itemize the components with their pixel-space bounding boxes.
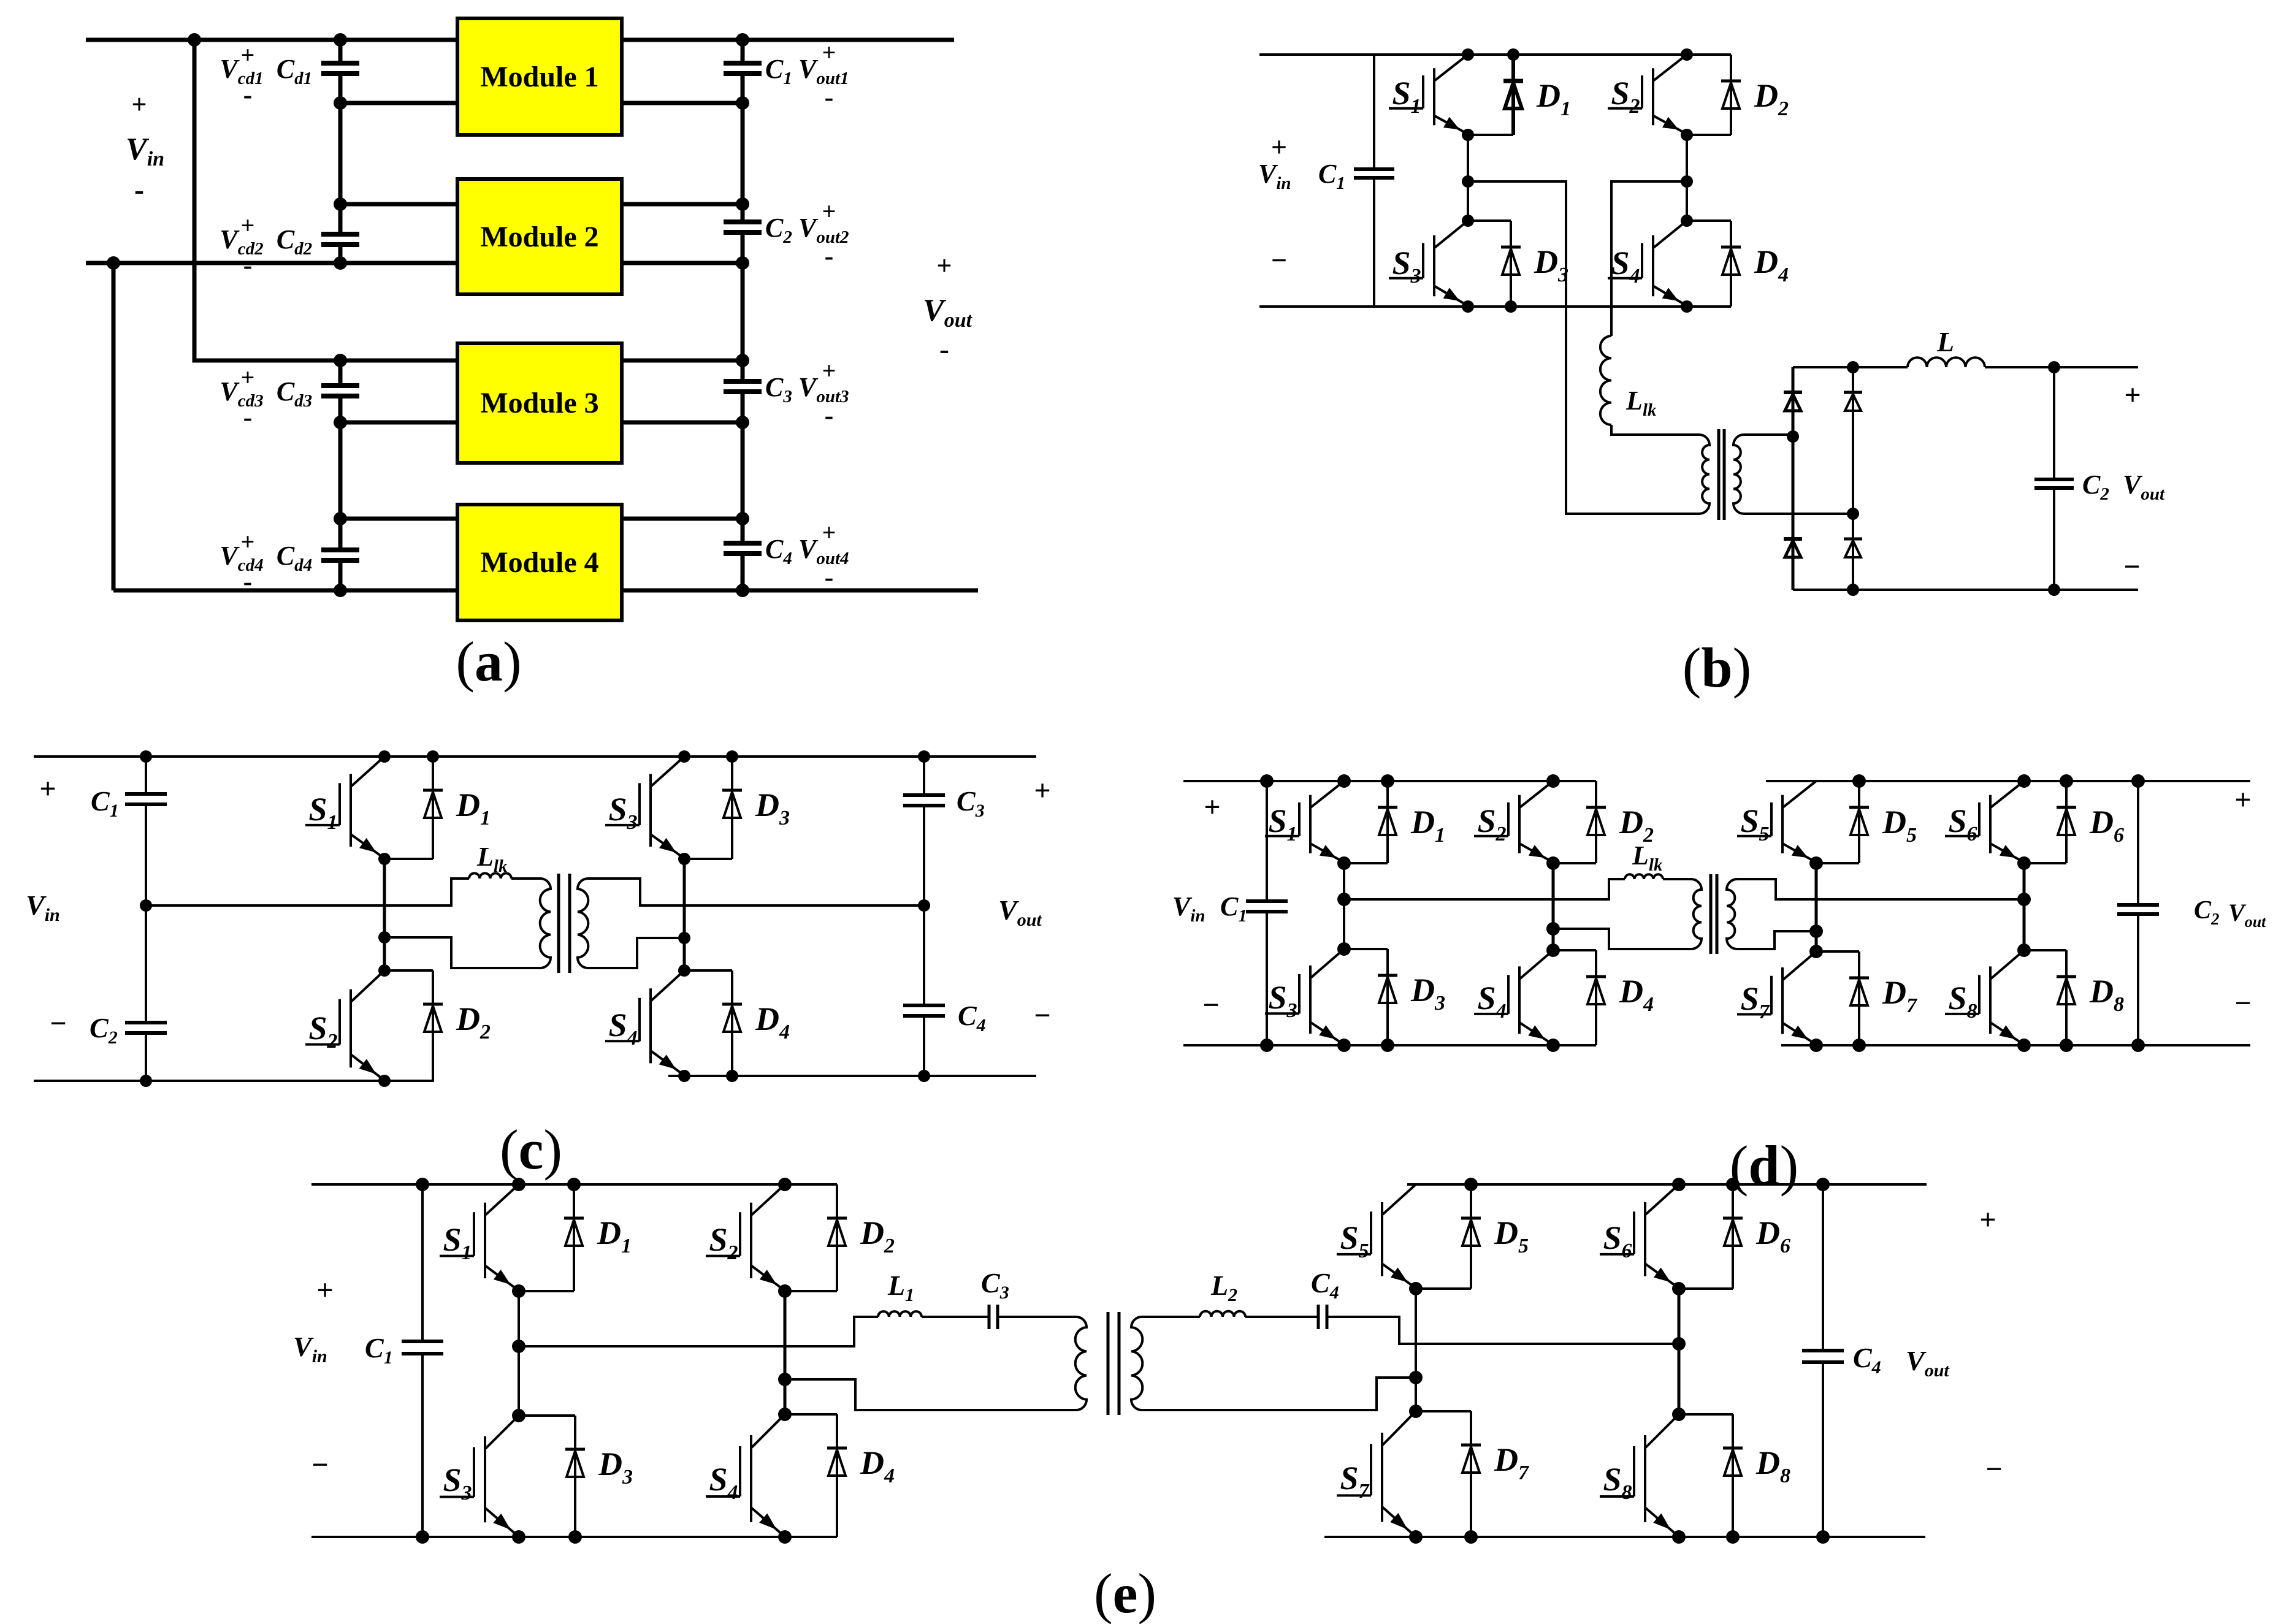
wire (d) C2 leads bbox=[2137, 781, 2139, 1045]
svg-text:−: − bbox=[1271, 245, 1287, 276]
wire (d) S3 collector to D3 bbox=[1344, 948, 1388, 950]
node S3 (e) emitter junction bbox=[512, 1530, 525, 1544]
transistor S4 (e) bbox=[706, 1414, 785, 1535]
transistor S7 (d) bbox=[1737, 951, 1816, 1043]
node S2 (b) emitter junction bbox=[1681, 129, 1693, 141]
wire (a) Module 4 upper-left lead bbox=[340, 517, 457, 521]
wire (b) Llk to primary top bbox=[1611, 425, 1700, 435]
svg-text:+: + bbox=[1034, 774, 1050, 807]
wire (b) bottom input rail bbox=[1259, 305, 1731, 308]
wire (a) Module 1 lower-right lead bbox=[622, 101, 743, 105]
wire (c) S2 collector to D2 bbox=[384, 969, 433, 972]
node S4 (c) collector junction bbox=[678, 964, 690, 977]
svg-text:(d): (d) bbox=[1730, 1134, 1798, 1197]
wire (c) left bridge mid vertical bbox=[383, 859, 386, 970]
wire (b) S3 collector to D3 bbox=[1468, 219, 1511, 222]
diode D3 (c) bbox=[722, 757, 742, 859]
capacitor C4 (c) bbox=[903, 1005, 945, 1016]
node S8 (d) emitter junction bbox=[2017, 1039, 2031, 1052]
node (a) Cd4 bottom bbox=[334, 584, 347, 597]
node S1 (e) collector junction bbox=[512, 1178, 525, 1191]
wire (b) S1 emitter to D1 bbox=[1468, 134, 1513, 136]
transistor S8 (d) bbox=[1945, 950, 2024, 1043]
node (e) D1 top bbox=[567, 1178, 581, 1191]
block Module 1 bbox=[457, 18, 622, 135]
node (c) D4 bottom bbox=[726, 1070, 738, 1082]
svg-text:-: - bbox=[243, 250, 253, 280]
wire (e) S6 emitter to D6 bbox=[1679, 1287, 1733, 1290]
wire (e) top right rail bbox=[1407, 1183, 1927, 1186]
svg-text:-: - bbox=[825, 82, 834, 112]
wire (d) S4 collector to D4 bbox=[1553, 949, 1596, 951]
svg-text:(c): (c) bbox=[500, 1118, 562, 1181]
diode D6 (e) bbox=[1723, 1184, 1743, 1289]
transistor S2 (c) bbox=[305, 970, 384, 1079]
svg-text:+: + bbox=[241, 212, 255, 239]
wire (b) S4 collector to D4 bbox=[1687, 219, 1731, 222]
svg-text:+: + bbox=[1204, 791, 1220, 823]
wire (c) tap to primary bottom bbox=[384, 937, 540, 968]
node S4 (e) emitter junction bbox=[778, 1530, 792, 1544]
wire (c) secondary bottom to right tap bbox=[589, 938, 684, 968]
capacitor C1 (d) bbox=[1246, 901, 1288, 912]
node (b) rectifier right leg top bbox=[1847, 361, 1859, 373]
wire (e) S7 collector to D7 bbox=[1416, 1410, 1471, 1412]
capacitor C1 (e) bbox=[402, 1341, 443, 1354]
wire (c) secondary top to Vout mid bbox=[589, 879, 924, 905]
block Module 3 bbox=[457, 343, 622, 463]
wire (a) Module 3 lower-right lead bbox=[622, 421, 743, 425]
node S8 (d) collector junction bbox=[2017, 944, 2031, 957]
node (a) C1 top bbox=[736, 33, 749, 47]
node (e) right bridge midpoint bbox=[1672, 1337, 1686, 1351]
transformer winding (c) primary bbox=[540, 879, 551, 968]
node (a) Cd3 bottom bbox=[334, 416, 347, 429]
transistor S1 (b) bbox=[1389, 55, 1468, 133]
node (d) D7 bottom bbox=[1852, 1039, 1866, 1052]
wire (d) top left rail bbox=[1183, 780, 1596, 782]
wire (e) L1 to C3 bbox=[922, 1316, 989, 1318]
svg-text:-: - bbox=[243, 80, 253, 110]
node (c) C1 top bbox=[140, 750, 152, 763]
node (a) C1 bottom bbox=[736, 96, 749, 110]
wire (c) S4 collector to D4 bbox=[684, 969, 732, 972]
wire (e) bottom right rail bbox=[1324, 1536, 1925, 1538]
transistor S6 (d) bbox=[1945, 781, 2024, 861]
svg-text:−: − bbox=[2234, 987, 2251, 1020]
node (a) Cd3 top bbox=[334, 354, 347, 367]
transformer winding (c) secondary bbox=[578, 879, 589, 968]
transistor S4 (d) bbox=[1474, 950, 1553, 1043]
capacitor C1 (c) bbox=[125, 794, 167, 804]
svg-text:+: + bbox=[2234, 783, 2251, 816]
node S2 (b) collector junction bbox=[1681, 48, 1693, 61]
svg-text:-: - bbox=[243, 402, 253, 432]
wire (b) right midpoint down to Llk bbox=[1611, 181, 1687, 336]
node (e) primary bottom tap bbox=[778, 1373, 792, 1386]
node S1 (b) collector junction bbox=[1462, 48, 1474, 61]
node (a) Cd2 bottom bbox=[334, 256, 347, 270]
node (b) bridge midpoint right bbox=[1681, 175, 1693, 188]
wire (c) top rail bbox=[34, 755, 1036, 758]
diode D4 (e) bbox=[827, 1414, 847, 1537]
svg-text:Module 4: Module 4 bbox=[480, 546, 598, 579]
wire (d) bottom right rail bbox=[1781, 1044, 2250, 1046]
node (b) secondary bottom junction bbox=[1847, 508, 1859, 520]
node (b) bridge midpoint left bbox=[1462, 175, 1474, 188]
diode D rect lower-left bbox=[1784, 514, 1802, 590]
node S2 (d) collector junction bbox=[1546, 774, 1560, 788]
capacitor C1 bbox=[724, 63, 762, 74]
capacitor C3 bbox=[724, 381, 762, 392]
node (d) C1 top bbox=[1260, 774, 1274, 788]
node S2 (c) emitter junction bbox=[378, 1075, 391, 1087]
node (c) D3 top bbox=[726, 750, 738, 763]
wire (c) C1 C2 column bbox=[145, 757, 147, 1081]
transistor S3 (e) bbox=[440, 1416, 519, 1535]
svg-text:+: + bbox=[131, 90, 147, 120]
wire (d) Llk to primary top bbox=[1663, 878, 1691, 880]
transistor S4 (b) bbox=[1608, 221, 1687, 305]
node S5 (e) emitter junction bbox=[1409, 1282, 1423, 1295]
node (c) secondary tap node bbox=[678, 932, 690, 944]
wire (b) rectifier left leg bbox=[1792, 367, 1795, 590]
transformer core (d) bbox=[1711, 874, 1717, 954]
wire (e) top left rail bbox=[311, 1183, 837, 1186]
wire (b) S2-S4 midpoint segment bbox=[1686, 135, 1688, 221]
capacitor C2 bbox=[724, 222, 762, 232]
wire (d) S7 collector to D7 bbox=[1816, 950, 1859, 953]
node (d) primary bottom tap bbox=[1546, 922, 1560, 936]
wire (a) Module 3 lower-left lead bbox=[340, 421, 457, 425]
transformer core (c) bbox=[559, 874, 570, 973]
wire (b) output bottom rail bbox=[1793, 589, 2138, 591]
block Module 4 bbox=[457, 505, 622, 620]
diode D3 (e) bbox=[565, 1416, 585, 1537]
inductor Llk (b) bbox=[1600, 336, 1611, 425]
wire (c) S3 emitter to D3 bbox=[684, 858, 732, 860]
node S3 (c) collector junction bbox=[678, 750, 690, 763]
diode D1 (b) bbox=[1503, 55, 1523, 135]
svg-text:+: + bbox=[241, 364, 255, 391]
wire (e) L2 to C4 bbox=[1245, 1316, 1318, 1318]
svg-text:(a): (a) bbox=[456, 630, 521, 693]
node (d) D8 bottom bbox=[2060, 1039, 2073, 1052]
node (e) D6 top bbox=[1726, 1178, 1740, 1191]
transistor S8 (e) bbox=[1600, 1414, 1679, 1535]
svg-text:+: + bbox=[316, 1274, 333, 1306]
wire (b) output top rail bbox=[1793, 366, 2138, 368]
node (a) Cd2 top bbox=[334, 197, 347, 211]
wire (a) Module 2 lower-right lead bbox=[622, 261, 743, 265]
wire (d) secondary bottom to tap bbox=[1736, 931, 1816, 949]
node (b) secondary top junction bbox=[1787, 430, 1799, 443]
node S3 (b) collector junction bbox=[1462, 215, 1474, 227]
transistor S2 (d) bbox=[1474, 781, 1553, 861]
wire (a) Module 3 upper-left lead bbox=[340, 359, 457, 363]
capacitor Cd4 bbox=[321, 550, 359, 560]
node S7 (d) emitter junction bbox=[1809, 1039, 1823, 1052]
svg-text:-: - bbox=[243, 566, 253, 597]
wire (c) C3 C4 column bbox=[923, 757, 925, 1076]
node (d) D1 top bbox=[1381, 774, 1394, 788]
node S1 (c) collector junction bbox=[378, 750, 391, 763]
node S7 (e) collector junction bbox=[1409, 1405, 1423, 1418]
transistor S7 (e) bbox=[1337, 1411, 1416, 1535]
wire (b) C1 leads bbox=[1373, 55, 1375, 307]
node S4 (e) collector junction bbox=[778, 1408, 792, 1421]
wire (b) S1-S3 midpoint segment bbox=[1467, 135, 1469, 221]
wire (d) secondary top to right mid bbox=[1736, 879, 2024, 899]
wire (d) top right rail bbox=[1766, 780, 2250, 782]
transformer winding (e) primary bbox=[1075, 1317, 1087, 1410]
node (a) C3 bottom bbox=[736, 416, 749, 429]
diode D3 (d) bbox=[1378, 949, 1397, 1045]
node (a) Cd1 bottom bbox=[334, 96, 347, 110]
wire (e) leg2 mid vertical bbox=[784, 1291, 787, 1414]
wire (b) left midpoint to primary bottom bbox=[1468, 181, 1700, 514]
wire (c) Vin mid to Llk bbox=[146, 879, 469, 905]
capacitor Cd1 bbox=[321, 63, 359, 74]
wire (a) Cd chain upper vertical bbox=[338, 40, 343, 263]
diode D rect lower-right bbox=[1844, 514, 1862, 590]
inductor L (b) bbox=[1908, 357, 1985, 367]
transistor S4 (c) bbox=[605, 970, 684, 1074]
transistor S2 (e) bbox=[706, 1184, 785, 1289]
node (e) C4out bottom bbox=[1816, 1530, 1830, 1544]
wire (d) tap to primary bottom bbox=[1553, 929, 1691, 949]
diode D2 (d) bbox=[1586, 781, 1606, 863]
capacitor Cd3 bbox=[321, 386, 359, 396]
svg-text:−: − bbox=[1202, 989, 1219, 1021]
diode D2 (c) bbox=[423, 970, 443, 1081]
node (a) C4 bottom bbox=[736, 584, 749, 597]
wire (e) S8 collector to D8 bbox=[1679, 1413, 1733, 1416]
wire (c) bottom left rail bbox=[34, 1080, 434, 1082]
node S2 (d) emitter junction bbox=[1546, 856, 1560, 870]
svg-text:+: + bbox=[822, 197, 836, 225]
node S4 (b) collector junction bbox=[1681, 215, 1693, 227]
node (c) Vout midpoint bbox=[918, 899, 930, 912]
wire (a) bottom rail bbox=[113, 589, 978, 593]
node S8 (e) collector junction bbox=[1672, 1408, 1686, 1421]
node S1 (b) emitter junction bbox=[1462, 129, 1474, 141]
svg-text:+: + bbox=[241, 41, 255, 69]
capacitor C3 (e) bbox=[989, 1305, 998, 1329]
block Module 2 bbox=[457, 179, 622, 294]
node (b) D3 bottom bbox=[1505, 300, 1517, 313]
node S6 (e) collector junction bbox=[1672, 1178, 1686, 1191]
wire (e) C1 leads bbox=[421, 1184, 424, 1537]
node (d) D6 top bbox=[2060, 774, 2073, 788]
svg-text:−: − bbox=[1985, 1453, 2002, 1485]
node S6 (e) emitter junction bbox=[1672, 1282, 1686, 1295]
node S2 (c) collector junction bbox=[378, 964, 391, 977]
node (e) left bridge midpoint bbox=[512, 1340, 525, 1353]
node S2 (e) emitter junction bbox=[778, 1284, 792, 1298]
node S1 (d) emitter junction bbox=[1337, 856, 1351, 870]
node S6 (d) collector junction bbox=[2017, 774, 2031, 788]
wire (e) S5 emitter to D5 bbox=[1416, 1287, 1471, 1290]
diode D2 (e) bbox=[827, 1184, 847, 1291]
node (b) C2 top bbox=[2048, 361, 2060, 373]
node (e) secondary tap node bbox=[1409, 1371, 1423, 1384]
wire (e) midpoint to L1 bbox=[519, 1317, 878, 1346]
wire (a) top input rail bbox=[86, 38, 954, 42]
wire (c) right bridge mid vertical bbox=[683, 859, 686, 970]
transistor S5 (d) bbox=[1737, 781, 1816, 861]
svg-text:−: − bbox=[311, 1449, 328, 1481]
diode D5 (d) bbox=[1849, 781, 1869, 863]
capacitor C4 bbox=[724, 543, 762, 554]
diode D1 (c) bbox=[423, 757, 443, 859]
svg-text:+: + bbox=[936, 251, 952, 281]
transformer winding (d) primary bbox=[1691, 879, 1702, 949]
wire (a) Module 2 upper-right lead bbox=[622, 202, 743, 207]
capacitor C2 (b) bbox=[2034, 479, 2074, 488]
wire (e) C4out leads bbox=[1822, 1184, 1824, 1537]
wire (e) S3 collector to D3 bbox=[519, 1414, 575, 1417]
wire (d) S1 emitter to D1 bbox=[1344, 862, 1388, 864]
capacitor Cd2 bbox=[321, 234, 359, 245]
wire (a) left Vin+ branch vertical bbox=[194, 40, 340, 360]
diode D rect upper-left bbox=[1784, 367, 1802, 436]
node (c) C4 bottom bbox=[918, 1070, 930, 1082]
node (a) C2 top bbox=[736, 197, 749, 211]
wire (a) Module 1 lower-left lead bbox=[340, 101, 457, 105]
node (a) C3 top bbox=[736, 354, 749, 367]
transistor S1 (e) bbox=[440, 1184, 519, 1289]
wire (e) S1 emitter to D1 bbox=[519, 1290, 574, 1292]
wire (b) C2 leads bbox=[2053, 367, 2055, 590]
node (a) Vin- tap bbox=[107, 256, 120, 270]
wire (d) S6 emitter to D6 bbox=[2024, 862, 2066, 864]
wire (d) S2 emitter to D2 bbox=[1553, 862, 1596, 864]
transistor S5 (e) bbox=[1337, 1184, 1416, 1287]
svg-text:−: − bbox=[2123, 551, 2140, 583]
transformer core (b) bbox=[1719, 429, 1724, 520]
node S3 (d) emitter junction bbox=[1337, 1039, 1351, 1052]
svg-text:+: + bbox=[822, 357, 836, 384]
node (a) Vin+ tap bbox=[188, 33, 201, 47]
node (c) Vin midpoint bbox=[140, 899, 152, 912]
node (b) C2 bottom bbox=[2048, 584, 2060, 596]
svg-text:-: - bbox=[134, 173, 144, 206]
node (e) D8 bottom bbox=[1726, 1530, 1740, 1544]
wire (d) S8 collector to D8 bbox=[2024, 949, 2066, 951]
transformer core (e) bbox=[1108, 1312, 1119, 1415]
svg-text:L: L bbox=[1936, 326, 1954, 357]
node (a) C4 top bbox=[736, 512, 749, 525]
svg-text:(e): (e) bbox=[1094, 1562, 1156, 1624]
node S7 (e) emitter junction bbox=[1409, 1530, 1423, 1544]
wire (d) leg2 mid vertical bbox=[1552, 863, 1555, 950]
wire (e) S5-S7 vertical bbox=[1415, 1289, 1417, 1411]
node (d) C2 top bbox=[2131, 774, 2145, 788]
wire (b) rectifier right leg bbox=[1852, 367, 1854, 590]
svg-text:+: + bbox=[39, 772, 56, 805]
wire (a) left Vin- branch vertical bbox=[112, 263, 116, 590]
svg-text:Module 1: Module 1 bbox=[480, 61, 598, 93]
diode D2 (b) bbox=[1721, 55, 1741, 135]
node S5 (d) emitter junction bbox=[1809, 856, 1823, 870]
diode D4 (b) bbox=[1721, 221, 1741, 307]
node S3 (b) emitter junction bbox=[1462, 300, 1474, 313]
transformer winding (b) primary bbox=[1699, 435, 1710, 514]
wire (c) Llk to primary top bbox=[511, 877, 540, 880]
wire (c) bottom right rail bbox=[668, 1075, 1036, 1077]
wire (e) S6-S8 vertical bbox=[1678, 1289, 1681, 1414]
node (b) rectifier right leg bottom bbox=[1847, 584, 1859, 596]
capacitor C4 output (e) bbox=[1802, 1351, 1844, 1362]
transistor S1 (d) bbox=[1265, 781, 1344, 861]
wire (b) top input rail bbox=[1259, 53, 1731, 56]
capacitor C1 (b) bbox=[1354, 169, 1394, 178]
node S1 (e) emitter junction bbox=[512, 1284, 525, 1298]
inductor Llk (c) bbox=[469, 873, 511, 879]
node (c) primary tap node bbox=[378, 931, 391, 944]
wire (a) Module 3 upper-right lead bbox=[622, 359, 743, 363]
node (a) C2 bottom bbox=[736, 256, 749, 270]
diode D4 (c) bbox=[722, 970, 742, 1076]
node S3 (e) collector junction bbox=[512, 1409, 525, 1422]
node S1 (c) emitter junction bbox=[378, 853, 391, 865]
node (e) C1 top bbox=[416, 1178, 429, 1191]
diode D7 (d) bbox=[1849, 951, 1869, 1045]
svg-text:-: - bbox=[825, 400, 834, 430]
node (c) C3 top bbox=[918, 750, 930, 763]
node (d) secondary bottom tap node bbox=[1809, 924, 1823, 938]
svg-text:-: - bbox=[939, 333, 949, 365]
node S4 (c) emitter junction bbox=[678, 1070, 690, 1082]
node (e) C4out top bbox=[1816, 1178, 1830, 1191]
svg-text:-: - bbox=[825, 562, 834, 592]
svg-text:-: - bbox=[825, 241, 834, 271]
node (d) C2 bottom bbox=[2131, 1039, 2145, 1052]
wire (a) Cd chain lower vertical bbox=[338, 360, 343, 590]
svg-text:+: + bbox=[241, 528, 255, 555]
wire (d) S6-S8 vertical bbox=[2023, 863, 2026, 950]
node (e) C1 bottom bbox=[416, 1530, 429, 1544]
svg-text:Module 3: Module 3 bbox=[480, 387, 598, 419]
wire (e) S2 emitter to D2 bbox=[785, 1290, 837, 1292]
node (e) D3 bottom bbox=[568, 1530, 582, 1544]
svg-text:(b): (b) bbox=[1683, 636, 1751, 699]
transformer winding (b) secondary bbox=[1733, 435, 1744, 514]
wire (e) tap to primary bottom bbox=[785, 1379, 1076, 1410]
transistor S2 (b) bbox=[1608, 55, 1687, 133]
svg-text:+: + bbox=[822, 519, 836, 546]
capacitor C3 (c) bbox=[903, 795, 945, 806]
wire (e) C3 to primary top bbox=[998, 1316, 1076, 1318]
node S3 (c) emitter junction bbox=[678, 853, 690, 865]
svg-text:+: + bbox=[822, 39, 836, 66]
wire (d) S5-S7 vertical bbox=[1815, 863, 1818, 951]
diode D7 (e) bbox=[1461, 1411, 1481, 1537]
node (c) D1 top bbox=[427, 750, 439, 763]
capacitor C4 (e) bbox=[1318, 1305, 1327, 1329]
capacitor C2 (d) bbox=[2117, 905, 2159, 914]
node (b) D1 top bbox=[1507, 48, 1519, 61]
node S4 (d) emitter junction bbox=[1546, 1039, 1560, 1052]
node (d) D3 bottom bbox=[1381, 1039, 1394, 1052]
svg-text:−: − bbox=[1034, 999, 1050, 1032]
node S8 (e) emitter junction bbox=[1672, 1530, 1686, 1544]
node (d) D5 top bbox=[1852, 774, 1866, 788]
diode D5 (e) bbox=[1461, 1184, 1481, 1289]
svg-text:+: + bbox=[1271, 131, 1287, 162]
node S3 (d) collector junction bbox=[1337, 942, 1351, 956]
